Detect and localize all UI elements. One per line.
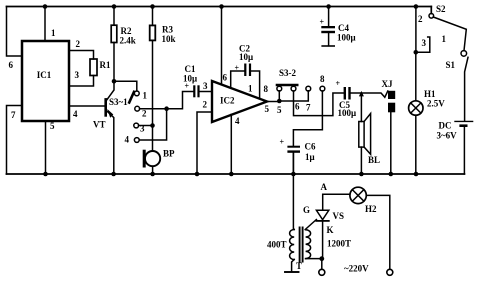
svg-text:5: 5 — [265, 104, 270, 114]
svg-text:100μ: 100μ — [337, 33, 356, 43]
node pin1/top rail — [43, 4, 48, 9]
svg-text:A: A — [321, 182, 328, 192]
capacitor C4 — [326, 4, 331, 9]
node BL arrow tap — [359, 91, 364, 97]
node pin2/ground — [195, 172, 200, 177]
svg-text:10k: 10k — [162, 34, 176, 44]
svg-text:1: 1 — [51, 28, 56, 38]
svg-text:4: 4 — [73, 109, 78, 119]
wire node A to H2 — [323, 194, 350, 210]
svg-text:VS: VS — [333, 211, 345, 221]
svg-text:R3: R3 — [162, 25, 173, 35]
IC U1 (IC1) — [22, 41, 69, 121]
svg-text:DC: DC — [439, 121, 452, 131]
wire IC2 pin2 to ground — [197, 112, 212, 174]
svg-text:2: 2 — [76, 39, 81, 49]
svg-text:~220V: ~220V — [344, 264, 369, 274]
transformer secondary 1200T winding — [306, 230, 311, 259]
svg-text:+: + — [320, 18, 325, 27]
wire pin 4 to VT base — [69, 105, 104, 107]
svg-text:100μ: 100μ — [338, 108, 357, 118]
battery DC 3~6V — [455, 120, 473, 122]
wire bottom ground rail — [7, 173, 465, 175]
wire pin 3 to R1 bottom — [69, 76, 94, 87]
svg-text:1: 1 — [143, 91, 148, 101]
wire contact8 to C6 — [293, 91, 322, 146]
svg-text:4: 4 — [125, 135, 130, 145]
transformer T core — [300, 228, 303, 262]
S3-1 blade — [129, 92, 134, 103]
svg-text:BP: BP — [163, 149, 175, 159]
node VT collector / R2 — [112, 79, 117, 84]
wire contact6 to C5 — [294, 91, 344, 116]
svg-text:2.4k: 2.4k — [120, 36, 136, 46]
svg-text:T: T — [296, 261, 302, 271]
wire IC2 output to S3-2 — [267, 101, 279, 103]
node K junction — [319, 256, 324, 261]
svg-text:2: 2 — [142, 109, 147, 119]
svg-text:S2: S2 — [436, 4, 446, 14]
svg-text:2: 2 — [203, 100, 208, 110]
svg-text:8: 8 — [264, 84, 269, 94]
wire collector to S3-1 contact 1 — [114, 81, 137, 91]
node contact2/contact4 riser — [164, 106, 169, 111]
wire pin 2 to R1 — [69, 51, 94, 60]
lamp H2 — [350, 187, 366, 203]
svg-text:4: 4 — [235, 116, 240, 126]
svg-text:S3-2: S3-2 — [279, 68, 297, 78]
resistor R2 — [112, 4, 117, 9]
microphone BP — [145, 151, 160, 166]
svg-text:1: 1 — [442, 34, 447, 44]
wire pin 1 — [44, 7, 46, 42]
svg-text:1: 1 — [248, 84, 253, 94]
terminal mains right — [387, 269, 393, 275]
svg-text:C4: C4 — [338, 23, 349, 33]
svg-text:6: 6 — [295, 102, 300, 112]
resistor R3 — [150, 4, 155, 9]
svg-text:1200T: 1200T — [327, 239, 351, 249]
svg-text:2: 2 — [418, 14, 423, 24]
svg-text:7: 7 — [306, 103, 311, 113]
svg-text:H1: H1 — [424, 89, 436, 99]
wire left pin7 branch — [7, 106, 23, 175]
terminal mains left — [319, 269, 325, 275]
node pin5/ground — [43, 172, 48, 177]
op-amp U2 (IC2) — [212, 81, 267, 122]
svg-text:+: + — [336, 79, 341, 88]
svg-text:C6: C6 — [305, 142, 316, 152]
gate wire — [305, 220, 316, 230]
svg-text:1μ: 1μ — [305, 152, 315, 162]
svg-text:3: 3 — [422, 38, 427, 48]
svg-text:5: 5 — [277, 105, 282, 115]
svg-text:10μ: 10μ — [239, 52, 253, 62]
svg-text:H2: H2 — [365, 204, 377, 214]
transformer primary 400T winding — [292, 153, 295, 230]
svg-text:+: + — [280, 138, 285, 147]
wire H2 to mains terminal — [366, 195, 390, 269]
svg-text:R2: R2 — [121, 26, 132, 36]
svg-text:+: + — [185, 82, 190, 91]
svg-text:IC2: IC2 — [220, 96, 235, 106]
node VT emitter / ground — [111, 172, 116, 177]
lamp H1 branch from top rail — [414, 4, 419, 9]
svg-text:IC1: IC1 — [37, 70, 52, 80]
svg-text:400T: 400T — [267, 240, 287, 250]
svg-text:BL: BL — [368, 155, 380, 165]
wire contact 3 to R3 line — [139, 125, 153, 127]
wire top supply rail — [7, 6, 432, 8]
lamp H1 — [415, 52, 417, 101]
svg-text:3: 3 — [75, 70, 80, 80]
S2 contact 3 stub — [416, 37, 430, 52]
svg-text:6: 6 — [223, 73, 228, 83]
wire left pin6 branch — [7, 7, 23, 57]
wire IC2 pin4 to ground — [230, 114, 232, 174]
svg-text:XJ: XJ — [382, 79, 393, 89]
svg-text:S1: S1 — [446, 60, 456, 70]
switch S2 — [430, 7, 432, 14]
svg-text:2.5V: 2.5V — [427, 99, 445, 109]
switch S1 — [461, 51, 467, 57]
svg-text:R1: R1 — [100, 60, 111, 70]
svg-text:5: 5 — [50, 121, 55, 131]
wire pin 5 to ground rail — [45, 121, 47, 174]
svg-text:7: 7 — [11, 110, 16, 120]
svg-text:C1: C1 — [185, 64, 196, 74]
S3-2 blade — [277, 84, 297, 87]
svg-text:3: 3 — [203, 81, 208, 91]
svg-text:G: G — [303, 205, 310, 215]
transistor VT — [104, 99, 107, 115]
svg-text:6: 6 — [9, 60, 14, 70]
svg-text:VT: VT — [93, 120, 106, 130]
wire contact 2 to C1 — [140, 92, 194, 109]
wire contact 4 riser — [139, 109, 166, 140]
thyristor VS — [316, 210, 328, 219]
wire IC2 pin6 from top rail — [219, 4, 224, 9]
svg-text:3~6V: 3~6V — [437, 131, 458, 141]
svg-text:8: 8 — [320, 74, 325, 84]
speaker BL — [360, 94, 362, 122]
resistor R1 — [90, 59, 97, 76]
node contact3/R3 — [150, 123, 155, 128]
wire C5 to jack XJ — [351, 91, 388, 97]
svg-text:S3~1: S3~1 — [109, 97, 128, 107]
svg-text:K: K — [327, 225, 334, 235]
